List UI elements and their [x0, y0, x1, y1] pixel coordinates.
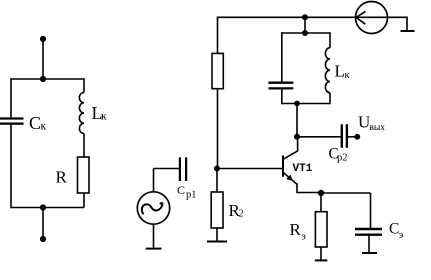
wire emitter node to Re: [318, 190, 324, 196]
svg-text:р1: р1: [186, 189, 197, 200]
wire tank bottom bar: [282, 103, 330, 105]
svg-text:э: э: [399, 230, 404, 241]
wire tank left branch: [281, 32, 283, 81]
wire cap to tank bottom bar: [281, 88, 283, 104]
wire left branch upper: [10, 78, 12, 118]
wire bottom bar: [11, 207, 84, 209]
capacitor tank plates: [268, 82, 293, 84]
wire base: [217, 168, 283, 170]
svg-text:к: к: [345, 70, 351, 81]
wire through source: [356, 16, 388, 18]
ground source: [146, 248, 162, 250]
transistor VT1 emitter arrow: [286, 175, 293, 181]
node junction top: [40, 76, 46, 82]
wire rail to tank top: [304, 17, 306, 33]
node collector: [294, 134, 300, 140]
wire right branch upper: [83, 78, 85, 92]
wire collector node to Cp2: [297, 136, 341, 138]
svg-text:вых: вых: [369, 123, 385, 133]
capacitor Ce plates: [355, 228, 382, 230]
node base: [214, 166, 220, 172]
wire source bottom: [153, 224, 155, 248]
resistor R2 body: [211, 192, 223, 228]
transistor VT1 collector lead: [283, 137, 297, 159]
wire Ce bottom: [368, 235, 370, 253]
node on rail: [302, 14, 308, 20]
ground Ce: [362, 252, 377, 254]
ground Re: [315, 259, 328, 261]
svg-text:к: к: [101, 111, 107, 123]
wire emitter node to Ce: [321, 192, 371, 194]
svg-text:2: 2: [239, 209, 244, 220]
resistor R1 top wire: [217, 17, 219, 54]
terminal dot top: [40, 36, 46, 42]
inductor Lk2 coil: [325, 48, 330, 93]
wire top supply rail: [218, 16, 356, 18]
wire tank right branch upper: [329, 32, 331, 48]
wire Cp2 to output: [348, 136, 356, 138]
wire source top: [153, 169, 155, 193]
capacitor Cp1 plates: [179, 157, 181, 181]
wire coil to resistor: [83, 134, 85, 158]
node tank bottom: [294, 101, 300, 107]
wire resistor to bottom bar: [83, 193, 85, 208]
node tank top: [302, 30, 308, 36]
wire Re to ground: [320, 247, 322, 260]
ground top right: [401, 30, 415, 32]
inductor Lk coil: [79, 93, 84, 134]
wire Cp1 to source: [154, 168, 180, 170]
svg-text:э: э: [302, 232, 306, 243]
svg-text:R: R: [290, 220, 302, 239]
wire tank to collector node: [296, 104, 298, 137]
svg-text:C: C: [29, 113, 41, 133]
source sine symbol: [142, 203, 163, 214]
wire R1 to base node: [217, 89, 219, 169]
svg-text:VT1: VT1: [293, 163, 313, 175]
wire Ce top: [370, 193, 372, 228]
wire base node to R2: [216, 169, 218, 193]
svg-text:C: C: [389, 221, 399, 238]
resistor R1 body: [212, 53, 223, 88]
svg-text:к: к: [41, 121, 47, 133]
wire: [42, 39, 44, 79]
wire R2 to ground: [216, 228, 218, 242]
svg-text:C: C: [177, 183, 185, 197]
terminal dot output: [354, 134, 360, 140]
capacitor Cp2 plates: [341, 124, 343, 147]
capacitor Ck plates: [0, 117, 24, 119]
arrow in source: [356, 11, 366, 24]
svg-text:L: L: [335, 62, 345, 81]
resistor Re body: [315, 212, 327, 247]
source circle top right: [356, 2, 388, 34]
node emitter: [320, 193, 322, 212]
terminal dot bottom: [40, 236, 46, 242]
transistor VT1 emitter lead: [283, 173, 321, 193]
source circle: [137, 192, 169, 224]
transistor VT1 base bar: [282, 156, 284, 177]
wire source to ground: [388, 17, 408, 31]
ground R2: [207, 241, 227, 243]
node junction bottom: [40, 204, 46, 210]
svg-text:р2: р2: [337, 153, 348, 164]
wire left branch lower: [10, 124, 12, 209]
svg-text:R: R: [56, 167, 68, 186]
wire: [42, 208, 44, 240]
wire tank top bar: [282, 32, 330, 34]
wire coil to tank bottom bar: [329, 93, 331, 105]
wire top bar: [11, 78, 84, 80]
resistor R body: [78, 157, 90, 193]
